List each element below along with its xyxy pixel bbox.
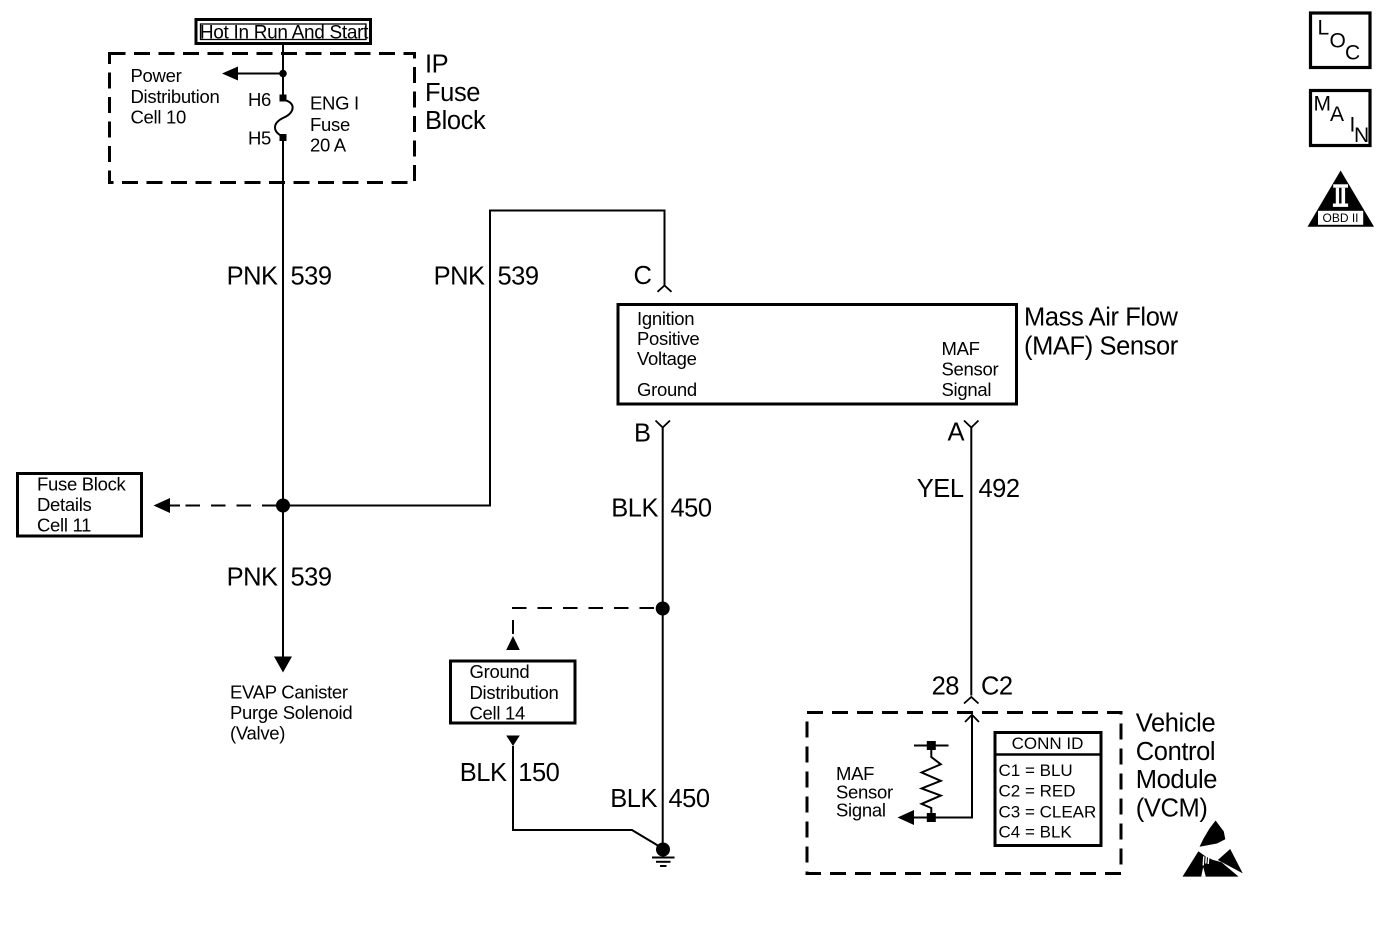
svg-text:Purge Solenoid: Purge Solenoid: [230, 702, 352, 723]
LOC legend box: [1311, 13, 1371, 68]
Vehicle Control Module dashed enclosure: [807, 713, 1121, 874]
svg-text:492: 492: [979, 475, 1020, 503]
wire stub at Fuse Block Details arrow: [168, 505, 180, 507]
wire MAF signal inside VCM with up arrow: [965, 715, 979, 722]
svg-text:PNK: PNK: [434, 263, 485, 291]
svg-text:C2: C2: [981, 673, 1013, 701]
arrow MAF Sensor Signal: [898, 810, 915, 825]
svg-text:Voltage: Voltage: [637, 348, 697, 369]
svg-text:CONN ID: CONN ID: [1012, 734, 1084, 753]
arrow into Ground Distribution cell: [506, 636, 520, 650]
svg-text:Ground: Ground: [637, 379, 697, 400]
svg-text:Cell 10: Cell 10: [131, 107, 187, 128]
svg-text:A: A: [948, 419, 965, 447]
svg-text:539: 539: [291, 564, 332, 592]
CONN ID table: [995, 733, 1101, 846]
svg-text:(VCM): (VCM): [1136, 795, 1208, 823]
arrow to Fuse Block Details: [154, 498, 171, 513]
svg-text:539: 539: [498, 263, 539, 291]
wire BLK 450 from B to splice: [662, 428, 664, 609]
svg-text:20 A: 20 A: [310, 135, 347, 156]
svg-text:BLK: BLK: [611, 495, 658, 523]
svg-text:450: 450: [671, 495, 712, 523]
svg-text:450: 450: [669, 785, 710, 813]
terminal H5: [280, 134, 287, 141]
svg-text:A: A: [1330, 103, 1344, 126]
MAIN legend box: [1311, 91, 1371, 148]
node Ground Distribution Cell 14 box: [451, 661, 576, 724]
svg-text:BLK: BLK: [460, 759, 507, 787]
svg-text:Cell 14: Cell 14: [470, 703, 526, 724]
wire PNK 539 down to EVAP solenoid: [282, 506, 284, 658]
svg-text:Signal: Signal: [836, 800, 886, 821]
svg-text:28: 28: [932, 673, 960, 701]
svg-text:BLK: BLK: [610, 785, 657, 813]
svg-text:N: N: [1354, 124, 1369, 147]
svg-text:Mass Air Flow: Mass Air Flow: [1024, 304, 1178, 332]
wire from Hot box down to fuse H6: [282, 45, 284, 98]
arrow to EVAP Canister Purge Solenoid: [274, 657, 292, 673]
svg-text:C1 = BLU: C1 = BLU: [999, 761, 1073, 780]
svg-text:(Valve): (Valve): [230, 723, 285, 744]
node ground G terminal dot: [656, 843, 670, 857]
svg-text:C: C: [634, 262, 652, 290]
svg-text:Hot In Run And Start: Hot In Run And Start: [200, 22, 369, 43]
svg-text:Fuse: Fuse: [425, 79, 480, 107]
svg-text:Details: Details: [37, 494, 91, 515]
svg-text:C: C: [1345, 42, 1360, 65]
svg-text:H6: H6: [248, 89, 271, 110]
wire BLK 150 to ground: [513, 746, 662, 848]
resistor R input termination: [914, 741, 949, 822]
svg-text:Distribution: Distribution: [131, 86, 220, 107]
svg-text:C3 = CLEAR: C3 = CLEAR: [999, 803, 1097, 822]
svg-text:OBD II: OBD II: [1322, 211, 1358, 225]
svg-text:Ground: Ground: [470, 661, 530, 682]
wire YEL 492 from A to VCM: [970, 428, 972, 696]
svg-text:B: B: [634, 420, 651, 448]
node Fuse Block Details Cell 11 box: [18, 473, 142, 536]
svg-text:L: L: [1318, 17, 1330, 40]
svg-text:Sensor: Sensor: [942, 359, 999, 380]
svg-text:H5: H5: [248, 128, 271, 149]
svg-text:Control: Control: [1136, 738, 1215, 766]
svg-text:Signal: Signal: [942, 379, 992, 400]
svg-text:MAF: MAF: [942, 338, 980, 359]
svg-text:150: 150: [518, 759, 559, 787]
svg-text:Block: Block: [425, 107, 486, 135]
svg-text:PNK: PNK: [227, 263, 278, 291]
svg-text:IP: IP: [425, 51, 448, 79]
svg-text:(MAF) Sensor: (MAF) Sensor: [1024, 332, 1179, 360]
svg-text:Fuse Block: Fuse Block: [37, 473, 127, 494]
dashed reference wire to Fuse Block Details: [175, 505, 277, 507]
svg-text:Positive: Positive: [637, 328, 699, 349]
svg-text:C2 = RED: C2 = RED: [999, 781, 1076, 800]
node power tap junction: [279, 70, 287, 78]
svg-text:YEL: YEL: [917, 475, 964, 503]
svg-text:Distribution: Distribution: [470, 682, 559, 703]
svg-text:Fuse: Fuse: [310, 114, 350, 135]
svg-text:Power: Power: [131, 65, 182, 86]
svg-text:C4 = BLK: C4 = BLK: [999, 823, 1073, 842]
wire tap to Power Distribution arrow: [236, 73, 283, 75]
wire BLK 450 from splice to ground: [662, 609, 664, 847]
node splice junction: [276, 499, 290, 513]
wire PNK 539 branch to MAF connector C: [283, 211, 665, 506]
svg-text:Cell 11: Cell 11: [37, 515, 91, 536]
OBD II symbol: [1308, 171, 1375, 227]
svg-text:EVAP Canister: EVAP Canister: [230, 682, 348, 703]
svg-text:Module: Module: [1136, 766, 1217, 794]
wire PNK 539 from H5 down to junction: [282, 141, 284, 506]
svg-text:Ignition: Ignition: [637, 308, 694, 329]
fuse ENG I 20A S-curve: [275, 100, 293, 137]
node Hot In Run And Start title box: [196, 20, 371, 44]
dashed reference wire to Ground Distribution: [513, 608, 654, 634]
IP Fuse Block dashed enclosure: [110, 54, 415, 183]
svg-text:O: O: [1330, 30, 1346, 53]
svg-text:Vehicle: Vehicle: [1136, 710, 1216, 738]
svg-text:ENG I: ENG I: [310, 93, 359, 114]
ground symbol: [652, 858, 675, 867]
arrow to Power Distribution: [222, 67, 238, 81]
component MAF Sensor box: [618, 305, 1017, 405]
svg-text:539: 539: [291, 263, 332, 291]
ESD warning symbol: [1183, 821, 1243, 877]
svg-text:M: M: [1314, 93, 1332, 116]
terminal H6: [280, 95, 287, 102]
svg-text:PNK: PNK: [227, 564, 278, 592]
arrow out of Ground Distribution cell: [506, 736, 520, 747]
node ground splice junction: [656, 602, 670, 616]
